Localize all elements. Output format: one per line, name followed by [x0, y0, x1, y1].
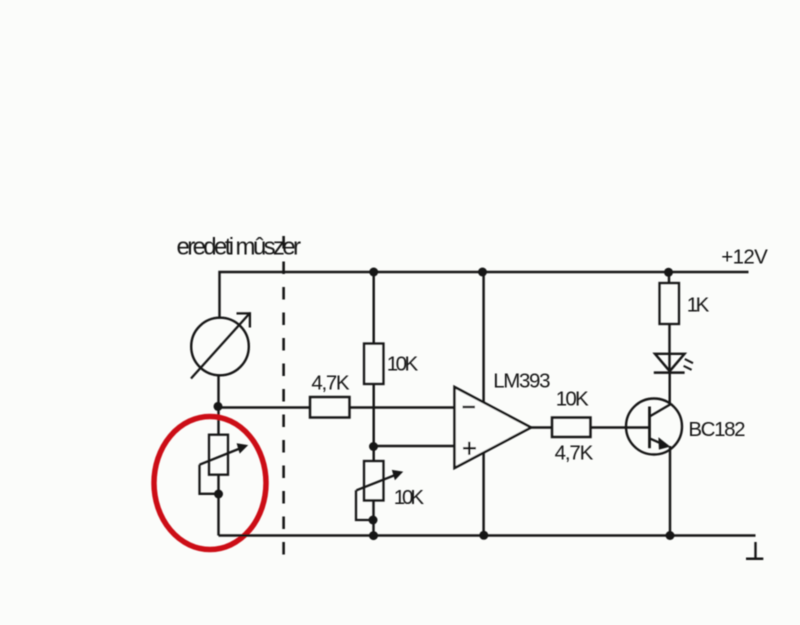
- resistor 4,7K (left): [310, 397, 350, 418]
- red circle highlight: [154, 417, 266, 550]
- svg-text:10K: 10K: [394, 486, 425, 509]
- svg-text:10K: 10K: [387, 353, 419, 376]
- ground symbol: [746, 542, 763, 559]
- resistor 10K (upper): [364, 344, 384, 385]
- junction dot top rail at 10K: [369, 268, 378, 277]
- wire node A to resistor 4,7K: [218, 406, 310, 408]
- wire op-amp output to resistor: [531, 426, 552, 428]
- node B junction dot: [369, 442, 378, 451]
- svg-text:4,7K: 4,7K: [311, 372, 350, 395]
- junction dot top rail at op-amp supply: [478, 268, 487, 277]
- resistor 1K: [660, 283, 680, 324]
- wire trimmer to bottom rail: [372, 501, 374, 536]
- wire resistor 1K to LED: [668, 324, 670, 373]
- wire node B down to trimmer 10K: [372, 447, 374, 462]
- wire +12V top rail: [220, 272, 749, 318]
- op-amp U1 LM393: [455, 387, 532, 468]
- resistor 10K/4,7K (output): [552, 418, 591, 438]
- svg-text:1K: 1K: [687, 293, 710, 316]
- wire rail to resistor 1K: [668, 272, 670, 283]
- svg-text:LM393: LM393: [493, 370, 550, 393]
- wire rail to resistor 10K: [372, 272, 374, 344]
- transistor Q1 BC182: [626, 399, 682, 455]
- wire node A down to thermistor: [217, 407, 219, 435]
- node A junction dot: [214, 402, 223, 411]
- wire node B to op-amp plus input: [374, 445, 455, 447]
- svg-text:BC182: BC182: [688, 418, 745, 441]
- svg-text:10K: 10K: [556, 388, 589, 411]
- junction dot bottom rail at op-amp supply: [479, 531, 488, 540]
- wire transistor emitter to bottom rail: [669, 446, 671, 536]
- dashed separator line: [282, 236, 285, 556]
- wire op-amp supply (vertical, passes behind op-amp): [482, 272, 484, 536]
- wire bottom rail: [219, 534, 756, 536]
- wire thermistor box bottom to bottom rail: [217, 475, 219, 536]
- wire meter to node A: [217, 375, 219, 406]
- wire resistor 4,7K to op-amp minus input: [350, 406, 455, 408]
- junction dot top rail at 1K: [664, 268, 673, 277]
- trimmer 10K (variable): [356, 461, 403, 520]
- wire LED to transistor collector: [668, 373, 670, 405]
- junction dot below trimmer: [369, 516, 378, 525]
- wire resistor to transistor base: [591, 426, 650, 428]
- svg-text:+12V: +12V: [721, 245, 768, 268]
- svg-text:4,7K: 4,7K: [555, 442, 594, 465]
- meter M1: [191, 312, 251, 378]
- junction dot bottom rail at trimmer: [369, 531, 378, 540]
- junction dot bottom rail at emitter: [666, 531, 675, 540]
- junction dot below thermistor: [214, 490, 223, 499]
- thermistor / variable resistor (circled): [200, 435, 249, 494]
- wire resistor 10K to node B: [372, 384, 374, 447]
- LED D1: [654, 354, 693, 373]
